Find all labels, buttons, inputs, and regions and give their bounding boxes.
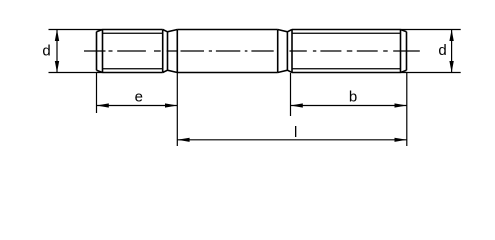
d-right dimension line xyxy=(451,30,453,73)
left thread bottom OD line xyxy=(103,72,163,74)
right runout groove vertical xyxy=(286,32,288,70)
right chamfer bottom diagonal xyxy=(401,70,407,72)
center axis (dash-dot) xyxy=(84,50,420,52)
l left arrowhead xyxy=(177,138,189,142)
right thread bottom OD line xyxy=(292,72,401,74)
left thread root top xyxy=(103,32,163,34)
svg-text:d: d xyxy=(42,43,50,60)
e left extension line xyxy=(96,73,98,113)
right thread start vertical xyxy=(291,30,293,73)
shank top line xyxy=(177,29,277,31)
dimension e xyxy=(97,73,178,147)
left chamfer vertical xyxy=(102,30,104,73)
right runout bottom profile xyxy=(278,70,292,72)
left runout groove vertical xyxy=(167,32,169,70)
right chamfer vertical xyxy=(400,30,402,73)
d-left bottom extension line xyxy=(49,72,103,74)
dimension d right xyxy=(401,30,461,73)
left thread end vertical xyxy=(162,30,164,73)
shank start vertical xyxy=(176,30,178,73)
dimension b xyxy=(291,72,407,146)
left chamfer bottom diagonal xyxy=(97,70,103,72)
e/l shared extension line xyxy=(176,73,178,147)
d-right bottom extension line xyxy=(401,72,461,74)
left thread top OD line xyxy=(103,29,163,31)
right runout top profile xyxy=(278,30,292,32)
dimension l xyxy=(177,138,406,142)
l dimension line xyxy=(177,139,406,141)
left end face xyxy=(96,32,98,71)
d-left bottom arrowhead xyxy=(55,61,59,73)
d-right top extension line xyxy=(401,29,461,31)
b left extension line xyxy=(290,73,292,116)
d-left dimension line xyxy=(56,30,58,73)
b left arrowhead xyxy=(291,103,303,107)
b right arrowhead xyxy=(395,103,407,107)
left runout top profile xyxy=(163,30,178,32)
left chamfer top diagonal xyxy=(97,30,103,32)
shank end vertical xyxy=(277,30,279,73)
right thread root top xyxy=(292,32,401,34)
b/l right extension line xyxy=(406,72,408,146)
right end face xyxy=(406,32,408,71)
d-left top arrowhead xyxy=(55,30,59,42)
dimension d left xyxy=(49,30,103,73)
d-right bottom arrowhead xyxy=(449,61,453,73)
stud body outline xyxy=(97,30,407,73)
right chamfer top diagonal xyxy=(401,30,407,32)
b dimension line xyxy=(291,105,407,107)
e dimension line xyxy=(97,105,178,107)
svg-text:b: b xyxy=(349,88,357,105)
svg-text:d: d xyxy=(438,42,446,59)
left runout bottom profile xyxy=(163,70,178,72)
svg-text:l: l xyxy=(294,124,297,141)
d-right top arrowhead xyxy=(449,30,453,42)
svg-text:e: e xyxy=(135,88,143,105)
shank bottom line xyxy=(177,72,277,74)
d-left top extension line xyxy=(49,29,103,31)
right thread top OD line xyxy=(292,29,401,31)
e left arrowhead xyxy=(97,103,109,107)
right thread root bottom xyxy=(292,68,401,70)
l right arrowhead xyxy=(395,138,407,142)
thread root lines (thin) xyxy=(103,33,401,69)
left thread root bottom xyxy=(103,68,163,70)
e right arrowhead xyxy=(165,103,177,107)
